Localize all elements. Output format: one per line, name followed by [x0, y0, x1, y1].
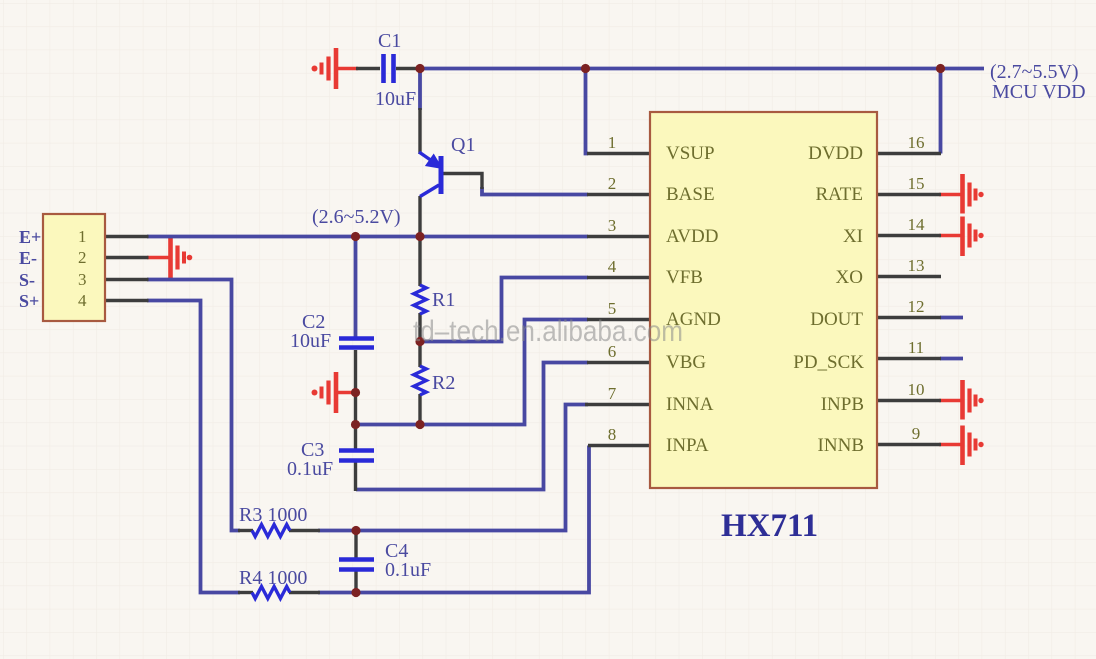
IC left pin names — [666, 143, 721, 456]
wire C1 left lead — [356, 67, 380, 70]
R3 left lead — [238, 529, 253, 532]
Q1 base bar — [439, 156, 444, 194]
svg-text:S+: S+ — [19, 291, 39, 311]
R4 left lead — [238, 591, 253, 594]
svg-text:VBG: VBG — [666, 352, 706, 373]
wire C3 bottom lead — [354, 462, 357, 491]
svg-text:R3 1000: R3 1000 — [239, 504, 307, 526]
svg-text:BASE: BASE — [666, 184, 715, 205]
node R1-R2 / VFB junction — [415, 337, 424, 346]
capacitor C1 plates — [384, 54, 394, 83]
svg-text:1: 1 — [78, 227, 87, 246]
resistor R3 zigzag — [252, 525, 290, 537]
svg-text:INPB: INPB — [821, 394, 864, 415]
wire AVDD net E+ to pin 3 — [147, 235, 588, 239]
svg-text:14: 14 — [908, 215, 926, 234]
svg-text:R2: R2 — [432, 372, 455, 394]
svg-text:9: 9 — [912, 424, 921, 443]
wire VDD top rail — [420, 67, 984, 71]
svg-text:R4 1000: R4 1000 — [239, 567, 307, 589]
capacitor C3 plates — [339, 451, 374, 461]
wire C2 branch down from AVDD — [354, 237, 358, 339]
wire Q1 base pin — [443, 174, 482, 190]
svg-text:3: 3 — [608, 216, 617, 235]
IC pin 8 — [588, 444, 650, 447]
R3 right lead — [289, 529, 320, 532]
IC pin 6 — [587, 361, 650, 364]
node AVDD / Q1 emitter junction — [415, 232, 424, 241]
IC pin 10 — [877, 399, 941, 402]
svg-text:HX711: HX711 — [721, 508, 818, 544]
wire S- net down to R3 — [147, 280, 240, 531]
wire R4 out to INPA pin 8 — [318, 446, 589, 593]
Q1 collector line — [420, 185, 439, 197]
ground at connector pin 2 E- (points right) — [147, 237, 192, 278]
svg-text:MCU VDD: MCU VDD — [992, 81, 1086, 103]
node C2 ground junction — [351, 388, 360, 397]
svg-text:12: 12 — [908, 297, 925, 316]
svg-text:10uF: 10uF — [375, 88, 416, 110]
svg-text:PD_SCK: PD_SCK — [793, 352, 864, 373]
resistor R4 zigzag — [252, 587, 290, 599]
IC pin 12 — [877, 316, 941, 319]
svg-text:td–tech.en.alibaba.com: td–tech.en.alibaba.com — [413, 315, 683, 348]
IC right pin numbers — [908, 133, 926, 443]
wire VSUP drop from rail to pin 1 — [586, 69, 589, 154]
svg-text:E-: E- — [19, 248, 37, 268]
svg-text:3: 3 — [78, 270, 87, 289]
svg-text:DOUT: DOUT — [810, 309, 863, 330]
svg-text:11: 11 — [908, 338, 924, 357]
wire C2 bottom to C3 top lead — [354, 350, 357, 449]
svg-text:R1: R1 — [432, 289, 455, 311]
IC left pin numbers — [608, 133, 617, 444]
IC right pin names — [793, 143, 864, 456]
node R2 / AGND junction — [415, 420, 424, 429]
svg-text:S-: S- — [19, 270, 35, 290]
resistor R1 zigzag — [414, 285, 426, 314]
capacitor C2 plates — [339, 339, 374, 348]
svg-text:15: 15 — [908, 174, 925, 193]
connector pin 3 lead — [105, 278, 149, 281]
connector pin 4 lead — [105, 299, 149, 302]
svg-text:10uF: 10uF — [290, 330, 331, 352]
svg-text:XO: XO — [836, 267, 863, 288]
svg-text:XI: XI — [843, 226, 863, 247]
svg-text:DVDD: DVDD — [808, 143, 863, 164]
node C4 top / R3 junction — [351, 526, 360, 535]
IC pin 13 — [877, 275, 941, 278]
C4 bottom lead — [354, 571, 357, 593]
wire C1 right lead — [396, 67, 421, 70]
wire DVDD pin16 up to rail — [939, 69, 943, 154]
IC pin 11 — [877, 357, 941, 360]
wire PD_SCK stub pin 11 — [940, 357, 963, 361]
IC pin 16 — [877, 152, 941, 155]
svg-text:13: 13 — [908, 256, 925, 275]
svg-text:C1: C1 — [378, 30, 401, 52]
svg-text:16: 16 — [908, 133, 925, 152]
wire DOUT stub pin 12 — [940, 316, 963, 320]
IC pin 3 — [587, 235, 650, 238]
Q1 emitter arrow line — [419, 152, 432, 161]
svg-text:7: 7 — [608, 384, 617, 403]
wire Q1 base to BASE pin 2 — [482, 187, 588, 195]
svg-text:0.1uF: 0.1uF — [287, 458, 333, 480]
ground at pin 9 INNB (points right) — [939, 426, 984, 466]
wire R3 out to INNA pin 7 — [318, 405, 588, 531]
connector pin 2 lead — [105, 256, 149, 259]
svg-text:INPA: INPA — [666, 435, 709, 456]
C4 top lead — [354, 531, 357, 559]
wire Q1 collector pin — [418, 108, 421, 154]
svg-text:4: 4 — [608, 257, 617, 276]
IC pin 4 — [587, 276, 650, 279]
svg-text:VSUP: VSUP — [666, 143, 715, 164]
Q1 emitter arrowhead — [428, 156, 441, 167]
svg-text:RATE: RATE — [816, 184, 864, 205]
IC pin 9 — [877, 443, 941, 446]
svg-text:4: 4 — [78, 291, 87, 310]
IC pin 14 — [877, 234, 941, 237]
svg-text:(2.7~5.5V): (2.7~5.5V) — [990, 61, 1079, 83]
svg-text:Q1: Q1 — [451, 134, 475, 156]
svg-text:AVDD: AVDD — [666, 226, 718, 247]
ground at C2 (points left) — [312, 372, 358, 413]
ground at pin 10 INPB (points right) — [939, 380, 984, 420]
IC pin 5 — [587, 318, 650, 321]
svg-text:2: 2 — [78, 248, 87, 267]
svg-text:INNA: INNA — [666, 394, 714, 415]
svg-text:10: 10 — [908, 380, 925, 399]
IC pin 15 — [877, 193, 941, 196]
IC pin 7 — [585, 403, 650, 406]
svg-text:0.1uF: 0.1uF — [385, 559, 431, 581]
connector pin 1 lead — [105, 235, 149, 238]
node C1 / Q1 junction — [415, 64, 424, 73]
node C3 top / AGND junction — [351, 420, 360, 429]
node DVDD rail junction — [936, 64, 945, 73]
ground at pin 14 XI (points right) — [939, 217, 984, 257]
svg-text:E+: E+ — [19, 227, 41, 247]
wire S+ net down to R4 — [147, 301, 240, 593]
wire C3 bottom to VBG pin 6 — [356, 363, 588, 490]
wire R1 bottom to VFB pin 4 — [420, 278, 589, 342]
node C4 bottom / R4 junction — [351, 588, 360, 597]
node AVDD / C2 junction — [351, 232, 360, 241]
svg-text:INNB: INNB — [818, 435, 864, 456]
wire Q1 emitter pin — [418, 196, 421, 238]
resistor R2 zigzag — [414, 366, 426, 395]
capacitor C4 plates — [339, 560, 374, 570]
wire R1 top lead — [418, 237, 421, 287]
svg-text:VFB: VFB — [666, 267, 703, 288]
ground at C1 (points left) — [312, 48, 359, 89]
ground at pin 15 RATE (points right) — [939, 174, 984, 214]
svg-text:1: 1 — [608, 133, 617, 152]
wire R1 bottom lead — [418, 313, 421, 343]
IC pin 1 — [587, 152, 650, 155]
IC pin 2 — [587, 193, 650, 196]
svg-text:8: 8 — [608, 425, 617, 444]
node VSUP drop junction — [581, 64, 590, 73]
svg-text:(2.6~5.2V): (2.6~5.2V) — [312, 206, 401, 228]
wire Q1 collector stub from rail junction — [418, 69, 422, 111]
wire R2 top lead — [418, 341, 421, 367]
wire R2 bottom lead — [418, 394, 421, 426]
R4 right lead — [289, 591, 320, 594]
wire R2 bottom to AGND pin 5 — [356, 320, 589, 425]
svg-text:2: 2 — [608, 174, 617, 193]
